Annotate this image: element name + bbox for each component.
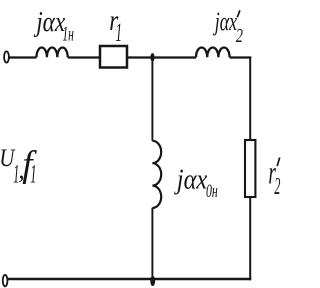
resistor R1 (r1) (100, 46, 127, 68)
label U1,f1 source designation (0, 144, 37, 189)
inductor L2 (jαx'2) (196, 48, 230, 58)
wire from inductor L2 to top-right corner (230, 56, 252, 58)
wire middle branch from node A down to inductor L0 (151, 58, 153, 141)
terminal T2 (bottom-left input) (3, 275, 8, 286)
svg-text:jαx: jαx (213, 7, 238, 36)
svg-text:0н: 0н (206, 181, 218, 202)
svg-text:1н: 1н (62, 22, 74, 46)
node A junction dot (top middle) (150, 53, 154, 62)
label jαx1н for inductor L1 (34, 7, 74, 46)
svg-text:2: 2 (274, 174, 280, 200)
svg-text:jαx: jαx (34, 7, 66, 38)
wire right branch vertical down to resistor R2 (249, 58, 251, 141)
wire bottom return from terminal T2 to right branch (8, 278, 251, 280)
svg-text:jαx: jαx (174, 164, 208, 195)
wire from inductor L1 to resistor R1 (68, 56, 100, 58)
node B junction dot (bottom middle) (150, 276, 155, 286)
svg-text:2: 2 (236, 25, 243, 47)
svg-text:1: 1 (30, 160, 36, 189)
wire top from terminal T1 to inductor L1 (9, 56, 36, 58)
label r'2 for resistor R2 (268, 156, 280, 200)
wire from inductor L0 down to node B (151, 208, 153, 279)
resistor R2 (r'2) (245, 140, 255, 197)
svg-text:1: 1 (116, 18, 123, 47)
terminal T1 (top-left input) (4, 51, 9, 62)
inductor L0 magnetizing branch (jαx0н) (152, 141, 161, 208)
inductor L1 (jαx1н) (37, 48, 68, 58)
wire from resistor R2 down to bottom wire (249, 197, 251, 280)
label r1 for resistor R1 (109, 4, 122, 47)
label jαx'2 for inductor L2 (213, 7, 243, 47)
wire from resistor R1 to inductor L2 (127, 56, 196, 58)
label jαx0н for inductor L0 (174, 164, 218, 202)
